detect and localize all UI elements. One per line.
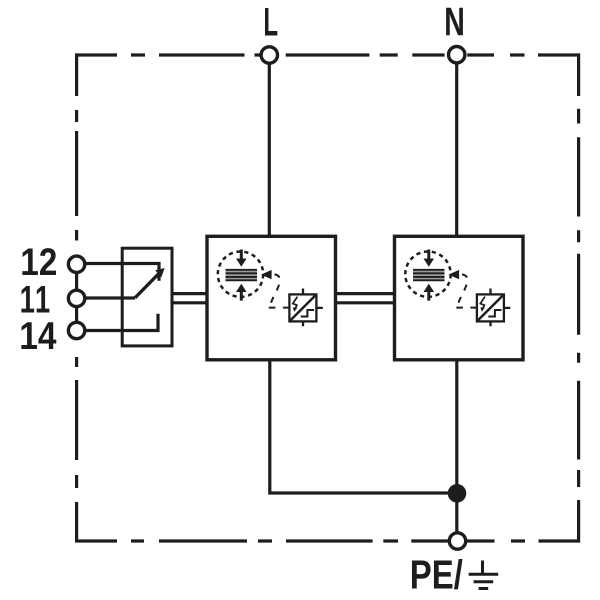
wire terminal 11 to relay common — [86, 296, 136, 299]
dashed trigger line to varistor — [457, 274, 467, 306]
trigger arrow at right of spark gap — [449, 270, 460, 279]
dashed trigger line horizontal dashes — [269, 307, 290, 309]
label 11 — [21, 286, 49, 313]
wire L terminal down to SPD1 — [268, 63, 271, 236]
enclosure dashed border: right edge — [577, 109, 580, 487]
label N — [446, 8, 463, 35]
relay box K1 — [122, 248, 172, 346]
wire terminal 12 to relay contact — [86, 264, 160, 281]
label PE/ — [412, 559, 462, 589]
relay switch arm arrowhead — [155, 268, 164, 277]
label 14 — [21, 322, 56, 349]
mechanical coupling double line SPD1 to SPD2 — [336, 294, 395, 303]
SPD module 1 box — [207, 236, 336, 359]
label 12 — [22, 248, 56, 275]
spark gap dashed circle — [218, 252, 263, 297]
dashed trigger line horizontal dashes — [456, 307, 477, 309]
SPD2 internal symbols (copy) — [405, 250, 510, 327]
trigger arrow at right of spark gap — [261, 270, 272, 279]
terminal PE — [449, 533, 465, 549]
spark gap electrode stack — [226, 269, 258, 281]
relay switch arm — [135, 274, 158, 298]
varistor step characteristic — [301, 310, 314, 317]
spark gap bottom arrow — [427, 291, 430, 300]
wire SPD2 bottom down to junction and PE — [455, 360, 458, 534]
varistor stubs — [303, 289, 323, 327]
varistor stubs — [491, 289, 511, 327]
label L — [265, 8, 277, 35]
terminal 12 — [68, 256, 84, 272]
spark gap top arrow — [240, 250, 243, 260]
terminal L — [261, 47, 277, 63]
wire linking terminals 12-11-14 — [75, 264, 78, 330]
mechanical coupling double line relay to SPD1 — [172, 294, 207, 303]
varistor step characteristic — [488, 310, 501, 317]
varistor diagonal — [478, 296, 503, 321]
wire N terminal down to SPD2 — [455, 63, 458, 236]
spark gap dashed circle — [405, 252, 450, 297]
varistor lightning bolt — [480, 297, 485, 310]
wire SPD1 bottom down and right to junction — [270, 360, 457, 493]
dashed trigger line to varistor — [270, 274, 280, 306]
enclosure dashed border: bottom edge — [131, 500, 579, 541]
varistor diagonal — [291, 296, 316, 321]
spark gap top arrow — [427, 250, 430, 260]
SPD1 internal symbols — [218, 250, 323, 327]
enclosure dashed border: top edge — [77, 55, 579, 96]
spark gap bottom arrow — [240, 291, 243, 300]
terminal N — [449, 47, 465, 63]
SPD module 2 box — [395, 236, 524, 359]
varistor lightning bolt — [293, 297, 298, 310]
wire terminal 14 to relay NO contact — [86, 314, 159, 331]
terminal 14 — [68, 322, 84, 338]
enclosure dashed border: left edge — [77, 110, 117, 541]
spark gap electrode stack — [413, 269, 445, 281]
varistor box — [289, 294, 316, 321]
terminal 11 — [68, 290, 84, 306]
earth ground symbol — [469, 561, 499, 589]
junction node dot — [448, 484, 467, 503]
varistor box — [477, 294, 504, 321]
